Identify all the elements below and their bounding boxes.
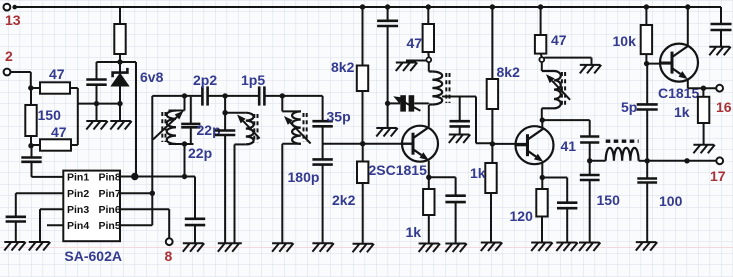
svg-text:6v8: 6v8 — [140, 69, 164, 85]
svg-text:2: 2 — [5, 48, 13, 64]
svg-text:Pin8: Pin8 — [99, 172, 121, 184]
svg-text:120: 120 — [510, 208, 534, 224]
svg-text:Pin7: Pin7 — [99, 188, 121, 200]
svg-text:Pin1: Pin1 — [67, 172, 89, 184]
svg-text:1k: 1k — [674, 104, 690, 120]
svg-text:180p: 180p — [288, 169, 320, 185]
svg-text:47: 47 — [407, 35, 423, 51]
svg-text:5p: 5p — [621, 99, 637, 115]
svg-text:8k2: 8k2 — [497, 64, 521, 80]
svg-text:22p: 22p — [188, 145, 212, 161]
svg-text:100: 100 — [659, 193, 683, 209]
svg-text:150: 150 — [597, 192, 621, 208]
svg-text:Pin2: Pin2 — [67, 188, 89, 200]
svg-text:1p5: 1p5 — [241, 72, 265, 88]
svg-text:8k2: 8k2 — [331, 59, 355, 75]
svg-text:8: 8 — [165, 248, 173, 264]
svg-text:35p: 35p — [327, 108, 351, 124]
svg-text:47: 47 — [51, 124, 67, 140]
svg-text:10k: 10k — [613, 33, 637, 49]
svg-text:150: 150 — [38, 107, 62, 123]
svg-text:2p2: 2p2 — [193, 72, 217, 88]
svg-text:Pin3: Pin3 — [67, 204, 89, 216]
svg-text:Pin4: Pin4 — [67, 220, 89, 232]
svg-text:17: 17 — [710, 168, 726, 184]
svg-text:13: 13 — [5, 12, 21, 28]
svg-text:1k: 1k — [470, 165, 486, 181]
svg-text:Pin5: Pin5 — [99, 220, 121, 232]
svg-text:2k2: 2k2 — [332, 192, 356, 208]
svg-text:1k: 1k — [406, 224, 422, 240]
svg-text:47: 47 — [49, 66, 65, 82]
svg-text:41: 41 — [561, 138, 577, 154]
svg-text:2SC1815: 2SC1815 — [369, 162, 428, 178]
svg-text:16: 16 — [716, 99, 732, 115]
svg-text:Pin6: Pin6 — [99, 204, 121, 216]
svg-text:SA-602A: SA-602A — [64, 248, 122, 264]
svg-text:47: 47 — [551, 32, 567, 48]
